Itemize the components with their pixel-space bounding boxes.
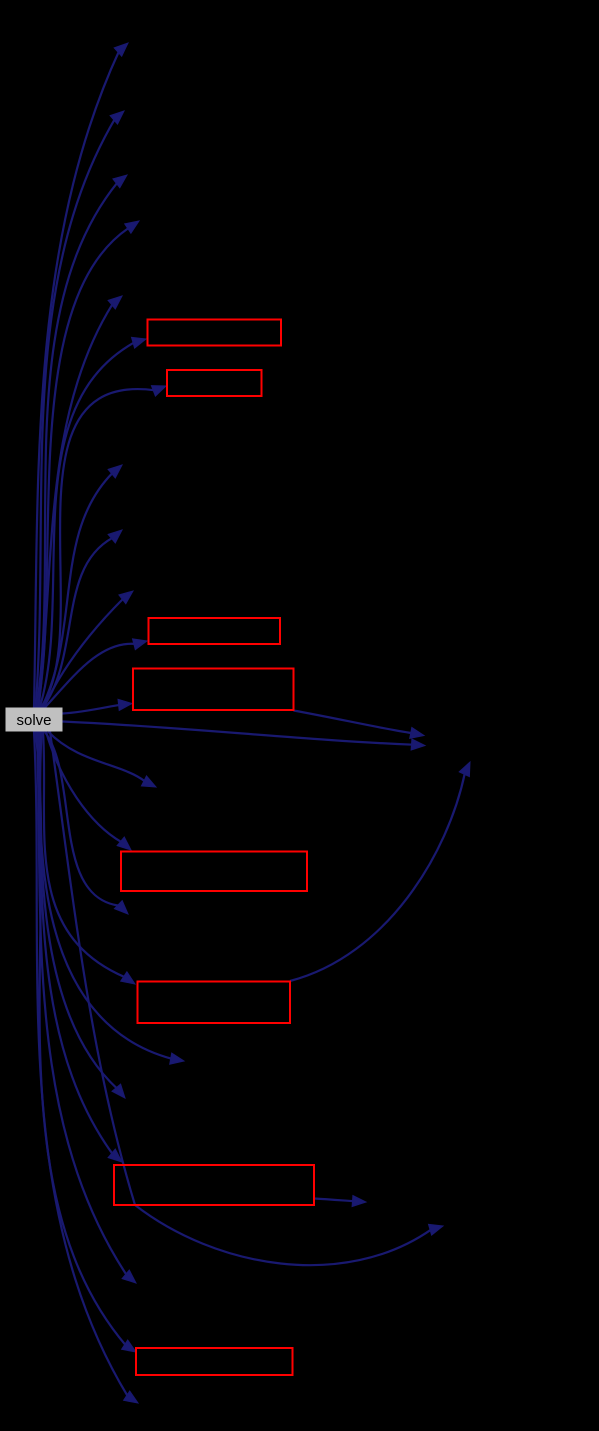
edge b3 [45, 639, 148, 708]
node box3 (red border) [149, 618, 281, 644]
edge farB [294, 711, 425, 739]
node box8 (red border) [136, 1348, 293, 1375]
edge farA [63, 722, 426, 751]
edge n18 [45, 732, 129, 915]
edge b7r [314, 1196, 366, 1207]
edge dip (solve to far right node) [50, 732, 443, 1266]
edge b8 [36, 732, 137, 1353]
edge n4 [38, 221, 140, 708]
edge n20 [40, 732, 184, 1065]
edge n21 [40, 732, 125, 1099]
edge b6 [43, 732, 135, 985]
node box4 (red border) [133, 669, 294, 711]
edge b7e [39, 732, 123, 1163]
edge b5 [46, 732, 131, 851]
node box7 (red border) [114, 1165, 314, 1205]
edge n10 [44, 591, 134, 708]
svg-text:solve: solve [16, 712, 51, 729]
node solve [6, 708, 63, 732]
edge n16 [48, 732, 156, 788]
edge n9 [43, 530, 123, 708]
edge n8 [42, 465, 123, 708]
edge n5 [39, 296, 123, 708]
edge b2 [41, 386, 167, 708]
edge arc6 [290, 762, 470, 981]
node box5 (red border) [121, 852, 307, 892]
edge n27 [34, 732, 138, 1404]
edge n3 [37, 175, 128, 708]
node box6 (red border) [138, 982, 291, 1024]
edge b4 [63, 699, 133, 713]
edge n1 [34, 43, 128, 708]
node box2 (red border) [167, 370, 262, 396]
edge b1 [40, 337, 147, 708]
node box1 (red border) [148, 320, 282, 346]
edge n25 [37, 732, 136, 1284]
edge n2 [36, 111, 125, 708]
